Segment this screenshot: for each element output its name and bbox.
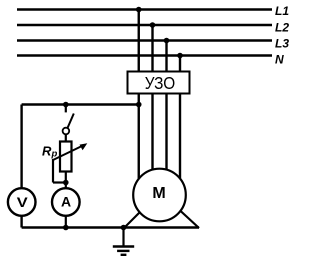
junction dot L2 tap: [150, 22, 156, 28]
junction dot ammeter to bottom wire: [63, 225, 69, 231]
svg-text:M: M: [152, 185, 165, 202]
junction dot ground tap: [121, 225, 127, 231]
svg-text:R: R: [42, 144, 52, 159]
resistor Rp body: [60, 142, 72, 172]
wire drop from N to RCD: [179, 56, 181, 72]
rheostat wiper arrow: [53, 143, 87, 182]
motor M: [133, 169, 186, 222]
ground: [113, 228, 134, 255]
junction dot wiper join: [63, 180, 69, 186]
wire line L1: [17, 8, 272, 10]
wire line L3: [17, 39, 272, 41]
svg-text:L1: L1: [275, 4, 289, 18]
voltmeter V: [8, 188, 36, 216]
svg-text:УЗО: УЗО: [145, 73, 176, 93]
ammeter A: [52, 188, 80, 216]
junction dot branch to phase drop: [136, 102, 142, 108]
wire RCD output phase 3 to motor: [165, 94, 167, 176]
switch S1: [63, 105, 74, 135]
junction dot N tap: [177, 53, 183, 59]
svg-text:A: A: [61, 194, 71, 210]
wire measurement branch top horizontal: [22, 103, 140, 105]
label Rp: [42, 144, 58, 160]
wire bottom horizontal: [22, 226, 199, 228]
junction dot L1 tap: [136, 7, 142, 13]
wire switch to resistor: [65, 134, 67, 142]
motor mount right leg: [173, 204, 199, 228]
junction dot switch tap: [63, 102, 69, 108]
svg-text:L3: L3: [275, 37, 289, 51]
junction dot L3 tap: [164, 38, 170, 44]
wire RCD output phase 2 to motor: [151, 94, 153, 176]
motor mount left leg: [124, 205, 147, 228]
wire RCD output neutral to motor: [179, 94, 181, 182]
wire RCD output phase 1 to motor: [138, 94, 140, 182]
wire resistor to ammeter: [65, 172, 67, 228]
wire line N: [17, 54, 272, 56]
RCD U1 box УЗО: [128, 72, 190, 94]
svg-text:L2: L2: [275, 21, 289, 35]
wire drop from L2 to RCD: [151, 25, 153, 72]
wire left vertical to voltmeter: [20, 105, 22, 228]
wire drop from L3 to RCD: [165, 41, 167, 72]
svg-text:V: V: [17, 195, 29, 211]
wire drop from L1 to RCD: [138, 10, 140, 72]
svg-text:N: N: [275, 53, 284, 67]
wire line L2: [17, 24, 272, 26]
